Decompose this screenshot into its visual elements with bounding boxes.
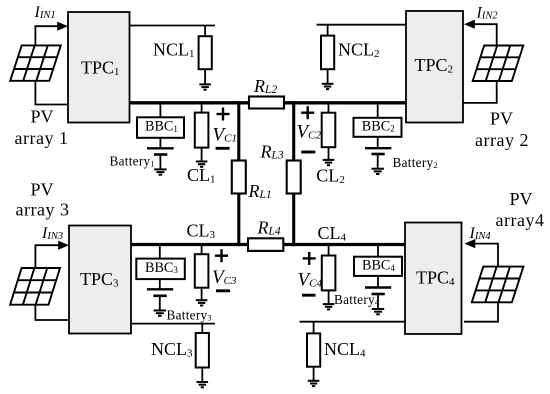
wire PV4 bottom to TPC4 [464, 302, 498, 321]
bottom DC bus [131, 243, 405, 246]
battery B3 [147, 289, 173, 296]
converter U4 TPC4 [405, 223, 462, 335]
svg-text:Battery1: Battery1 [110, 154, 155, 169]
minus sign VC1 [216, 147, 230, 150]
svg-text:CL1: CL1 [187, 165, 216, 186]
wire NCL2 stub [317, 24, 407, 26]
label PV array 2 [475, 109, 529, 151]
svg-text:Battery3: Battery3 [167, 308, 212, 323]
wire PV3 bottom to TPC3 [35, 305, 69, 320]
svg-text:TPC2: TPC2 [415, 55, 454, 76]
wire PV3 top to arrow [35, 245, 60, 268]
load CL2 [322, 113, 336, 148]
ground NCL3 [197, 382, 209, 387]
svg-text:IIN1: IIN1 [34, 4, 56, 21]
converter BBC2 [354, 118, 402, 137]
wire CL4 to ground [328, 290, 330, 304]
svg-text:VC3: VC3 [212, 267, 237, 288]
svg-text:VC2: VC2 [297, 122, 322, 143]
arrow into TPC1 [57, 22, 68, 31]
svg-text:PV: PV [31, 107, 54, 127]
svg-text:PV: PV [490, 109, 513, 129]
converter U1 TPC1 [68, 12, 130, 123]
load NCL4 [307, 333, 320, 366]
svg-text:IIN2: IIN2 [476, 5, 499, 22]
ground CL1 [196, 162, 208, 167]
top DC bus [130, 101, 407, 104]
resistor RL1 [232, 161, 246, 194]
wire BBC4 drop [377, 246, 379, 257]
wire CL1 drop [201, 103, 203, 113]
wire CL2 drop [328, 103, 330, 113]
PV array 3 panel [10, 268, 60, 305]
wire PV2 bottom to TPC2 [463, 81, 497, 103]
ground CL4 [323, 304, 335, 309]
svg-text:VC4: VC4 [298, 270, 323, 291]
wire PV1 bottom to TPC1 [35, 81, 68, 105]
minus sign VC3 [216, 289, 230, 292]
svg-text:array 3: array 3 [16, 200, 70, 220]
wire CL3 to ground [201, 288, 203, 301]
svg-text:PV: PV [510, 189, 533, 209]
resistor RL4 [248, 238, 283, 251]
svg-text:Battery4: Battery4 [334, 292, 380, 307]
converter U2 TPC2 [406, 11, 463, 123]
wire PV4 top to arrow [474, 244, 498, 267]
PV array 1 panel [10, 45, 61, 80]
wire PV2 top to arrow [473, 24, 497, 45]
plus sign VC4 [303, 252, 316, 265]
wire CL2 to ground [328, 147, 330, 160]
load CL3 [195, 254, 209, 288]
PV array 2 panel [473, 46, 524, 82]
ground NCL1 [199, 84, 211, 89]
svg-text:NCL3: NCL3 [151, 339, 193, 360]
svg-text:Battery2: Battery2 [393, 155, 438, 170]
wire NCL3 to ground [201, 368, 203, 383]
svg-text:CL2: CL2 [316, 166, 345, 187]
wire vertical tie line left (RL1 branch) [237, 101, 240, 246]
load NCL2 [321, 36, 334, 70]
svg-text:TPC1: TPC1 [81, 58, 120, 79]
wire NCL4 drop [313, 322, 315, 334]
svg-text:BBC3: BBC3 [145, 260, 178, 276]
wire BBC4 to battery [377, 276, 379, 288]
wire NCL2 to ground [327, 69, 329, 84]
svg-text:BBC4: BBC4 [362, 258, 395, 274]
svg-text:BBC1: BBC1 [145, 119, 178, 135]
wire CL1 to ground [201, 148, 203, 162]
svg-text:RL2: RL2 [253, 76, 277, 96]
wire TPC3 to NCL3 [131, 323, 215, 325]
svg-text:RL1: RL1 [248, 181, 272, 201]
minus sign VC4 [302, 294, 316, 297]
ground CL2 [323, 160, 335, 165]
svg-text:IIN3: IIN3 [41, 225, 63, 242]
wire BBC1 to battery [159, 138, 161, 149]
svg-text:NCL2: NCL2 [338, 40, 380, 61]
svg-text:NCL4: NCL4 [324, 339, 366, 360]
ground NCL4 [308, 381, 320, 386]
plus sign VC1 [217, 108, 230, 121]
wire NCL4 to ground [313, 367, 315, 381]
converter BBC1 [137, 117, 184, 138]
load NCL3 [196, 333, 209, 368]
ground battery1 [154, 169, 166, 174]
wire battery1 to ground [159, 155, 161, 170]
svg-text:RL4: RL4 [257, 218, 281, 238]
svg-text:CL3: CL3 [187, 221, 216, 242]
battery B2 [365, 148, 391, 154]
svg-text:BBC2: BBC2 [362, 119, 395, 135]
wire vertical tie line right (RL3 branch) [292, 101, 295, 246]
wire NCL4 stub [300, 321, 406, 323]
svg-text:array4: array4 [496, 210, 545, 230]
minus sign VC2 [301, 151, 315, 154]
battery B1 [147, 148, 174, 154]
svg-text:NCL1: NCL1 [153, 39, 195, 60]
plus sign VC2 [301, 106, 314, 119]
converter BBC3 [136, 259, 185, 280]
load CL1 [195, 113, 209, 148]
label PV array 1 [15, 107, 69, 148]
svg-text:RL3: RL3 [260, 142, 284, 162]
wire BBC2 drop [377, 103, 379, 118]
battery B4 [365, 288, 391, 295]
wire CL4 drop [328, 246, 330, 256]
svg-text:array 2: array 2 [475, 130, 529, 150]
wire TPC1 to NCL1 [130, 25, 216, 27]
wire NCL3 drop [201, 324, 203, 333]
svg-text:PV: PV [31, 180, 54, 200]
wire battery4 to ground [377, 294, 379, 309]
PV array 4 panel [472, 267, 524, 303]
ground battery2 [372, 169, 384, 174]
ground battery4 [372, 309, 384, 314]
arrow into TPC3 [58, 241, 69, 250]
wire CL3 drop [201, 246, 203, 254]
wire BBC3 to battery [159, 279, 161, 289]
arrow into TPC4 [465, 239, 476, 248]
wire PV1 top to arrow [35, 26, 59, 45]
wire NCL1 drop [204, 26, 206, 37]
resistor RL3 [287, 161, 301, 194]
ground battery3 [154, 311, 166, 316]
plus sign VC3 [215, 249, 228, 262]
svg-text:CL4: CL4 [318, 223, 347, 244]
wire NCL2 drop [327, 25, 329, 36]
svg-text:VC1: VC1 [213, 125, 237, 146]
wire NCL1 to ground [204, 69, 206, 84]
wire BBC2 to battery [377, 137, 379, 148]
label PV array 3 [16, 180, 70, 220]
resistor RL2 [249, 97, 284, 109]
wire battery3 to ground [159, 296, 161, 311]
converter BBC4 [354, 257, 402, 276]
ground NCL2 [322, 84, 334, 89]
wire BBC1 drop [159, 103, 161, 117]
svg-text:array 1: array 1 [15, 128, 69, 148]
ground CL3 [196, 300, 208, 305]
arrow into TPC2 [464, 20, 475, 29]
converter U3 TPC3 [69, 226, 131, 334]
load NCL1 [199, 36, 212, 69]
wire battery2 to ground [377, 154, 379, 169]
wire BBC3 drop [159, 246, 161, 259]
load CL4 [322, 256, 336, 291]
label PV array4 [496, 189, 545, 230]
svg-text:IIN4: IIN4 [469, 225, 492, 242]
